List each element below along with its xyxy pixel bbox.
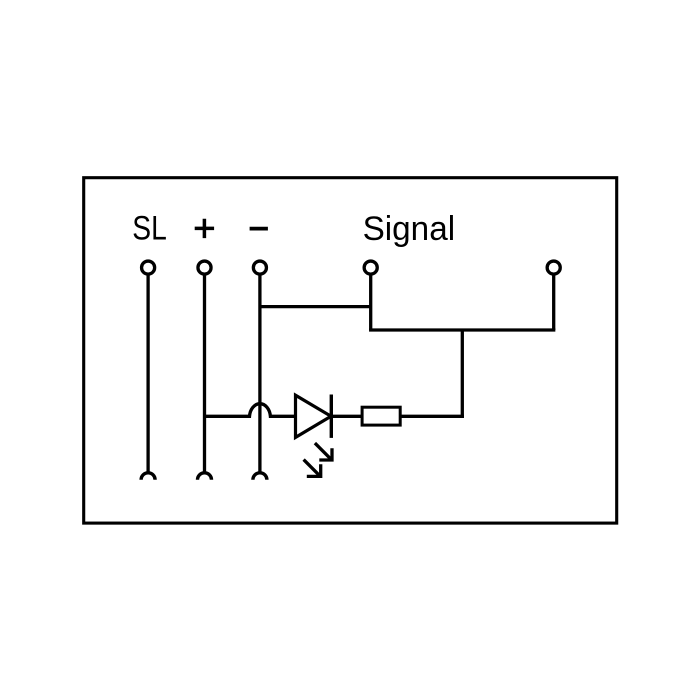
LED arrow 1 shaft (315, 443, 331, 459)
wire - to Signal-left horizontal (260, 305, 371, 308)
wire Signal-left vertical (369, 274, 372, 330)
terminal circle + (198, 261, 211, 274)
bottom plug contact + (198, 473, 212, 480)
LED arrow 2 head (307, 464, 322, 478)
bottom plug contact - (253, 473, 267, 480)
label - (250, 227, 268, 231)
LED arrow 1 head (319, 448, 333, 461)
wire + vertical (203, 274, 206, 473)
wire Signal-left to Signal-right horizontal (369, 328, 555, 331)
terminal circle SL (142, 261, 155, 274)
LED diode D1 triangle (296, 395, 332, 437)
wire junction drop to resistor branch (461, 330, 464, 418)
terminal circle Signal right (547, 261, 560, 274)
wire SL vertical (146, 274, 149, 473)
LED diode D1 cathode bar (330, 395, 333, 438)
wire resistor to junction (400, 415, 464, 418)
svg-text:Signal: Signal (363, 210, 456, 248)
wire Signal-right vertical (552, 274, 555, 330)
wire - vertical (258, 274, 261, 473)
svg-text:SL: SL (132, 210, 167, 248)
terminal circle - (253, 261, 266, 274)
bottom plug contact SL (141, 473, 155, 480)
label + (195, 219, 214, 238)
wire cathode to resistor (331, 415, 362, 418)
LED arrow 2 shaft (304, 460, 320, 476)
terminal circle Signal left (364, 261, 377, 274)
resistor R1 (362, 407, 400, 425)
wire + to LED with hop over - (205, 404, 297, 417)
enclosure border (84, 178, 617, 523)
